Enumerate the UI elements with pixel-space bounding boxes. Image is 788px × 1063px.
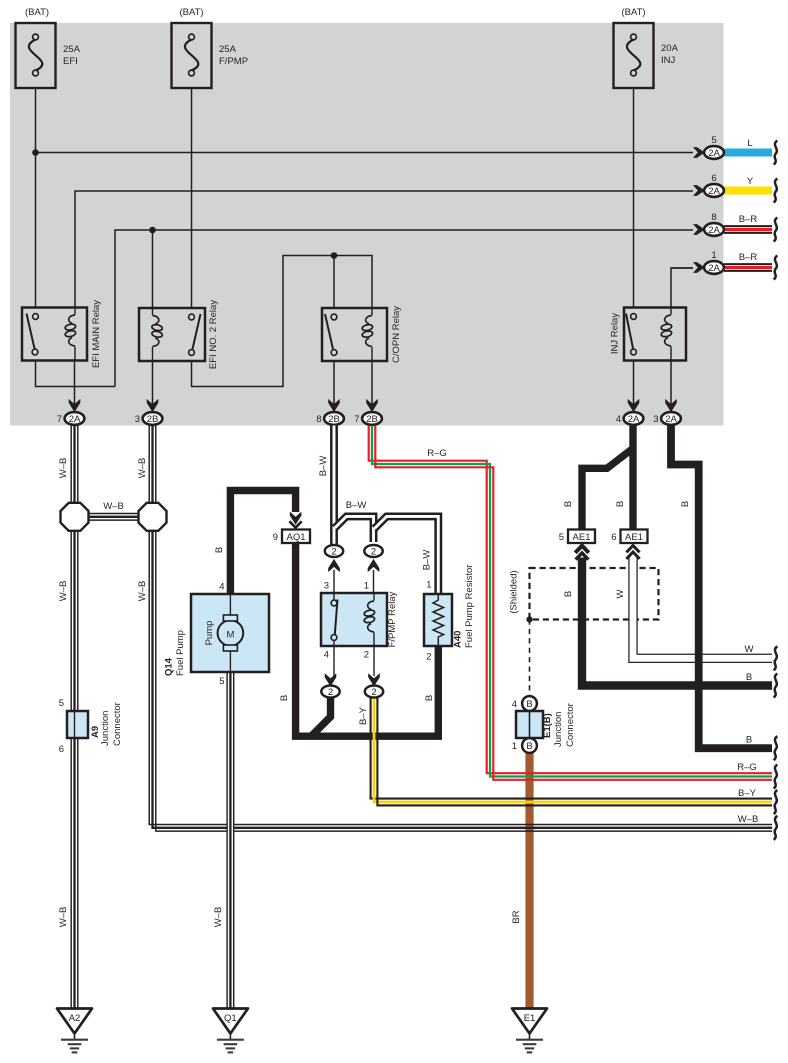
gray power-feed area [10,23,724,426]
svg-text:AQ1: AQ1 [286,532,305,543]
svg-text:L: L [747,138,752,149]
relay INJ Relay [610,308,687,361]
svg-text:BR: BR [511,910,522,923]
wire B from 3 2A jog right and down to edge [671,426,772,749]
svg-text:6: 6 [711,173,716,184]
svg-text:7: 7 [354,414,359,425]
node shield drain dot [526,616,532,622]
svg-text:B–W: B–W [346,500,367,511]
svg-text:W–B: W–B [137,458,148,479]
svg-text:5: 5 [59,698,64,709]
svg-text:B: B [279,695,290,701]
svg-text:Y: Y [747,176,754,187]
svg-text:7: 7 [57,414,62,425]
svg-text:B–Y: B–Y [738,788,757,799]
svg-text:E1: E1 [524,1013,536,1024]
svg-text:B: B [615,501,626,507]
relay EFI NO. 2 Relay [139,300,219,369]
row 1 2A with B-R wire [693,250,777,280]
ground A2 [57,1009,92,1053]
svg-text:2: 2 [364,650,369,661]
svg-text:2A: 2A [708,225,720,236]
component A40 Fuel Pump Resistor [424,565,475,663]
wire EFI NO.2 coil top from B-R row [152,230,154,308]
svg-text:EFI MAIN Relay: EFI MAIN Relay [91,300,102,368]
svg-text:A2: A2 [69,1013,81,1024]
svg-text:5: 5 [219,676,224,687]
connector 7 2B [354,399,382,425]
svg-text:B: B [746,735,752,746]
svg-text:B: B [214,547,225,553]
wire W-B from 7 2A down to A2 ground [71,426,78,1010]
row 8 2A with B-R wire [693,212,777,242]
fuse 25A EFI [16,23,56,88]
svg-text:W–B: W–B [137,581,148,602]
svg-text:INJ: INJ [661,55,676,66]
svg-text:Fuel Pump: Fuel Pump [175,630,186,676]
connector 4 2A [616,399,644,425]
svg-text:5: 5 [711,135,716,146]
svg-text:Pump: Pump [204,621,215,646]
wire B from 5 AE1 down and right to edge [582,558,772,686]
wire C/OPN coil bottom to connector 7 2B [371,362,373,413]
svg-text:B: B [526,741,532,752]
svg-text:2A: 2A [708,148,720,159]
wire thin lead row 5 [671,267,693,269]
wire fuse EFI down to EFI MAIN relay switch [35,88,37,308]
wire B-W hop branch to A40 pin1 [375,516,439,594]
svg-text:B: B [424,695,435,701]
svg-text:Q14: Q14 [164,657,175,676]
wire B-Y from F/PMP pin2 connector to right edge [371,697,772,805]
svg-text:Connector: Connector [565,703,576,747]
wire B branch from 4 2A to 5 AE1 [582,450,632,530]
svg-text:C/OPN Relay: C/OPN Relay [391,306,402,363]
connector 8 2B [316,399,344,425]
svg-text:B: B [680,501,691,507]
wire fuse INJ down to INJ relay switch [633,88,635,308]
wire B-W from 8 2B down to F/PMP pin3 connector [330,426,338,546]
node junction dot C/OPN switch feed [331,252,338,259]
svg-text:9: 9 [273,532,278,543]
svg-text:W–B: W–B [58,907,69,928]
wire R-G from 7 2B to right edge [369,426,772,780]
wire shield drain dashed lead [529,620,531,696]
svg-text:Junction: Junction [100,711,111,746]
relay C/OPN Relay [322,306,402,363]
shield dashed box [530,568,659,620]
ground E1 [512,1009,547,1053]
svg-text:Connector: Connector [112,702,123,746]
connector 2 below F/PMP pin4 [321,646,339,698]
wire EFI NO.2 coil bottom to connector 3 2B [152,362,154,413]
svg-text:3: 3 [653,414,658,425]
svg-text:B–R: B–R [739,214,758,225]
svg-text:6: 6 [611,532,616,543]
wire B below AQ1 down, along bottom, up to A40 pin2 [296,543,439,736]
svg-text:F/PMP: F/PMP [219,56,248,67]
svg-text:W–B: W–B [58,581,69,602]
svg-text:1: 1 [512,741,517,752]
connector 7 2A [57,399,85,425]
wire B stub from F/PMP pin4 connector to bottom run [311,697,330,736]
connector 6 AE1 with arrow [611,530,647,559]
svg-text:(BAT): (BAT) [621,7,645,18]
connector 5 AE1 with arrow [559,530,595,560]
svg-text:1: 1 [364,581,369,592]
svg-text:B–R: B–R [739,252,758,263]
svg-text:8: 8 [711,212,716,223]
svg-text:R–G: R–G [737,762,757,773]
wire EFI NO.2 switch bottom jog to C/OPN feeds [192,256,373,387]
svg-text:W: W [615,589,626,598]
svg-text:5: 5 [559,532,564,543]
junction octagon on second W-B wire [139,503,167,531]
svg-text:2B: 2B [147,414,159,425]
connector 3 2B [135,399,163,425]
svg-text:B: B [563,591,574,597]
svg-text:4: 4 [219,582,224,593]
connector E1(B) Junction Connector [512,696,576,753]
svg-text:B: B [563,501,574,507]
svg-text:4: 4 [616,414,621,425]
svg-text:W–B: W–B [103,501,124,512]
connector 9 AQ1 with arrow [273,512,310,543]
svg-text:3: 3 [135,414,140,425]
svg-text:B–W: B–W [422,550,433,571]
wire L row horizontal [36,152,694,154]
svg-text:25A: 25A [63,44,81,55]
svg-text:8: 8 [316,414,321,425]
svg-text:2A: 2A [69,414,81,425]
svg-text:B: B [526,699,532,710]
svg-text:2A: 2A [665,414,677,425]
svg-text:R–G: R–G [427,448,447,459]
row 5 2A with L wire [693,135,777,165]
wire break symbol W-B row [774,816,778,840]
connector A9 Junction Connector [59,698,123,755]
svg-text:3: 3 [324,581,329,592]
svg-text:4: 4 [324,650,329,661]
svg-text:B–Y: B–Y [358,706,369,725]
fuse 20A INJ [614,23,654,88]
connector 2 above F/PMP pin3 [325,545,343,593]
svg-text:AE1: AE1 [625,532,643,543]
svg-text:E1(B): E1(B) [542,713,553,738]
wire C/OPN switch top drop [333,256,335,309]
svg-text:2: 2 [371,687,376,698]
wire W from 6 AE1 down and right to edge [633,556,772,658]
svg-text:2A: 2A [708,186,720,197]
svg-text:B–W: B–W [318,456,329,477]
svg-text:EFI NO. 2 Relay: EFI NO. 2 Relay [208,300,219,369]
svg-text:(BAT): (BAT) [179,7,203,18]
wire break symbol B row 2 [774,736,778,760]
connector 2 below F/PMP pin2 [365,646,383,698]
wire break symbol R-G row [774,765,778,789]
component Q14 Fuel Pump [164,582,270,688]
row 6 2A with Y wire [693,173,777,203]
wire break symbol B-Y row [774,790,778,814]
svg-text:2B: 2B [328,414,340,425]
svg-text:1: 1 [711,250,716,261]
junction octagon on A2 wire [61,503,89,531]
svg-text:B: B [746,672,752,683]
ground Q1 [213,1009,248,1053]
svg-text:M: M [226,630,234,641]
wire C/OPN switch bottom to connector 8 2B [333,362,335,413]
wire B fuel pump feed up-over to AQ1 [230,491,295,595]
svg-text:EFI: EFI [63,56,78,67]
svg-text:W–B: W–B [58,458,69,479]
wire W-B from Q14 pin5 down to Q1 ground [227,672,234,1009]
svg-text:Q1: Q1 [224,1013,237,1024]
svg-text:2A: 2A [708,263,720,274]
svg-text:2B: 2B [366,414,378,425]
svg-text:2: 2 [328,687,333,698]
svg-text:W: W [745,644,754,655]
svg-text:Fuel Pump Resistor: Fuel Pump Resistor [464,565,475,648]
svg-text:(Shielded): (Shielded) [509,570,520,613]
wire W-B from 3 2B down, then right along bottom to edge [149,426,772,832]
svg-text:A40: A40 [453,631,464,648]
wire EFI MAIN coil bottom to connector 7 2A [74,361,76,413]
svg-text:2: 2 [331,547,336,558]
node junction dot B-R row to EFI NO.2 coil [149,227,156,234]
relay F/PMP Relay [321,581,398,661]
fuse 25A F/PMP [172,23,212,88]
svg-text:4: 4 [512,699,517,710]
node junction dot L row [32,149,39,156]
wire B-W branch to F/PMP pin1 connector [335,516,374,542]
wire EFI MAIN switch bottom jog [36,361,116,387]
svg-text:F/PMP Relay: F/PMP Relay [387,591,398,647]
svg-text:W–B: W–B [213,907,224,928]
svg-text:1: 1 [426,580,431,591]
wire break symbol B row 1 [774,674,778,698]
svg-text:2: 2 [371,547,376,558]
svg-text:INJ Relay: INJ Relay [610,313,621,354]
wire W-B octagon link [86,514,141,521]
svg-text:25A: 25A [219,44,237,55]
svg-text:AE1: AE1 [573,532,591,543]
relay EFI MAIN Relay [22,300,102,368]
connector 3 2A [653,399,681,425]
wire B from 4 2A down to 6 AE1 [629,426,636,530]
svg-text:20A: 20A [661,43,679,54]
wire BR brown from E1(B) to E1 ground [525,752,533,1009]
wire INJ switch bottom to connector 4 2A [633,361,635,413]
wire Y row horizontal + drop to EFI MAIN coil [75,191,693,308]
svg-text:2A: 2A [628,414,640,425]
wire break symbol W row [774,646,778,670]
wire INJ coil bottom to connector 3 2A [670,361,672,413]
svg-text:2: 2 [426,652,431,663]
svg-text:Junction: Junction [553,712,564,747]
wire fuse F/PMP down to EFI NO.2 switch [191,88,193,308]
svg-text:6: 6 [59,744,64,755]
wire B-R row 8 horizontal + drop at x115 [115,230,693,387]
wire B-R row 1 from INJ coil [671,268,693,308]
connector 2 above F/PMP pin1 [364,545,382,593]
svg-text:W–B: W–B [738,814,759,825]
svg-text:(BAT): (BAT) [25,7,49,18]
